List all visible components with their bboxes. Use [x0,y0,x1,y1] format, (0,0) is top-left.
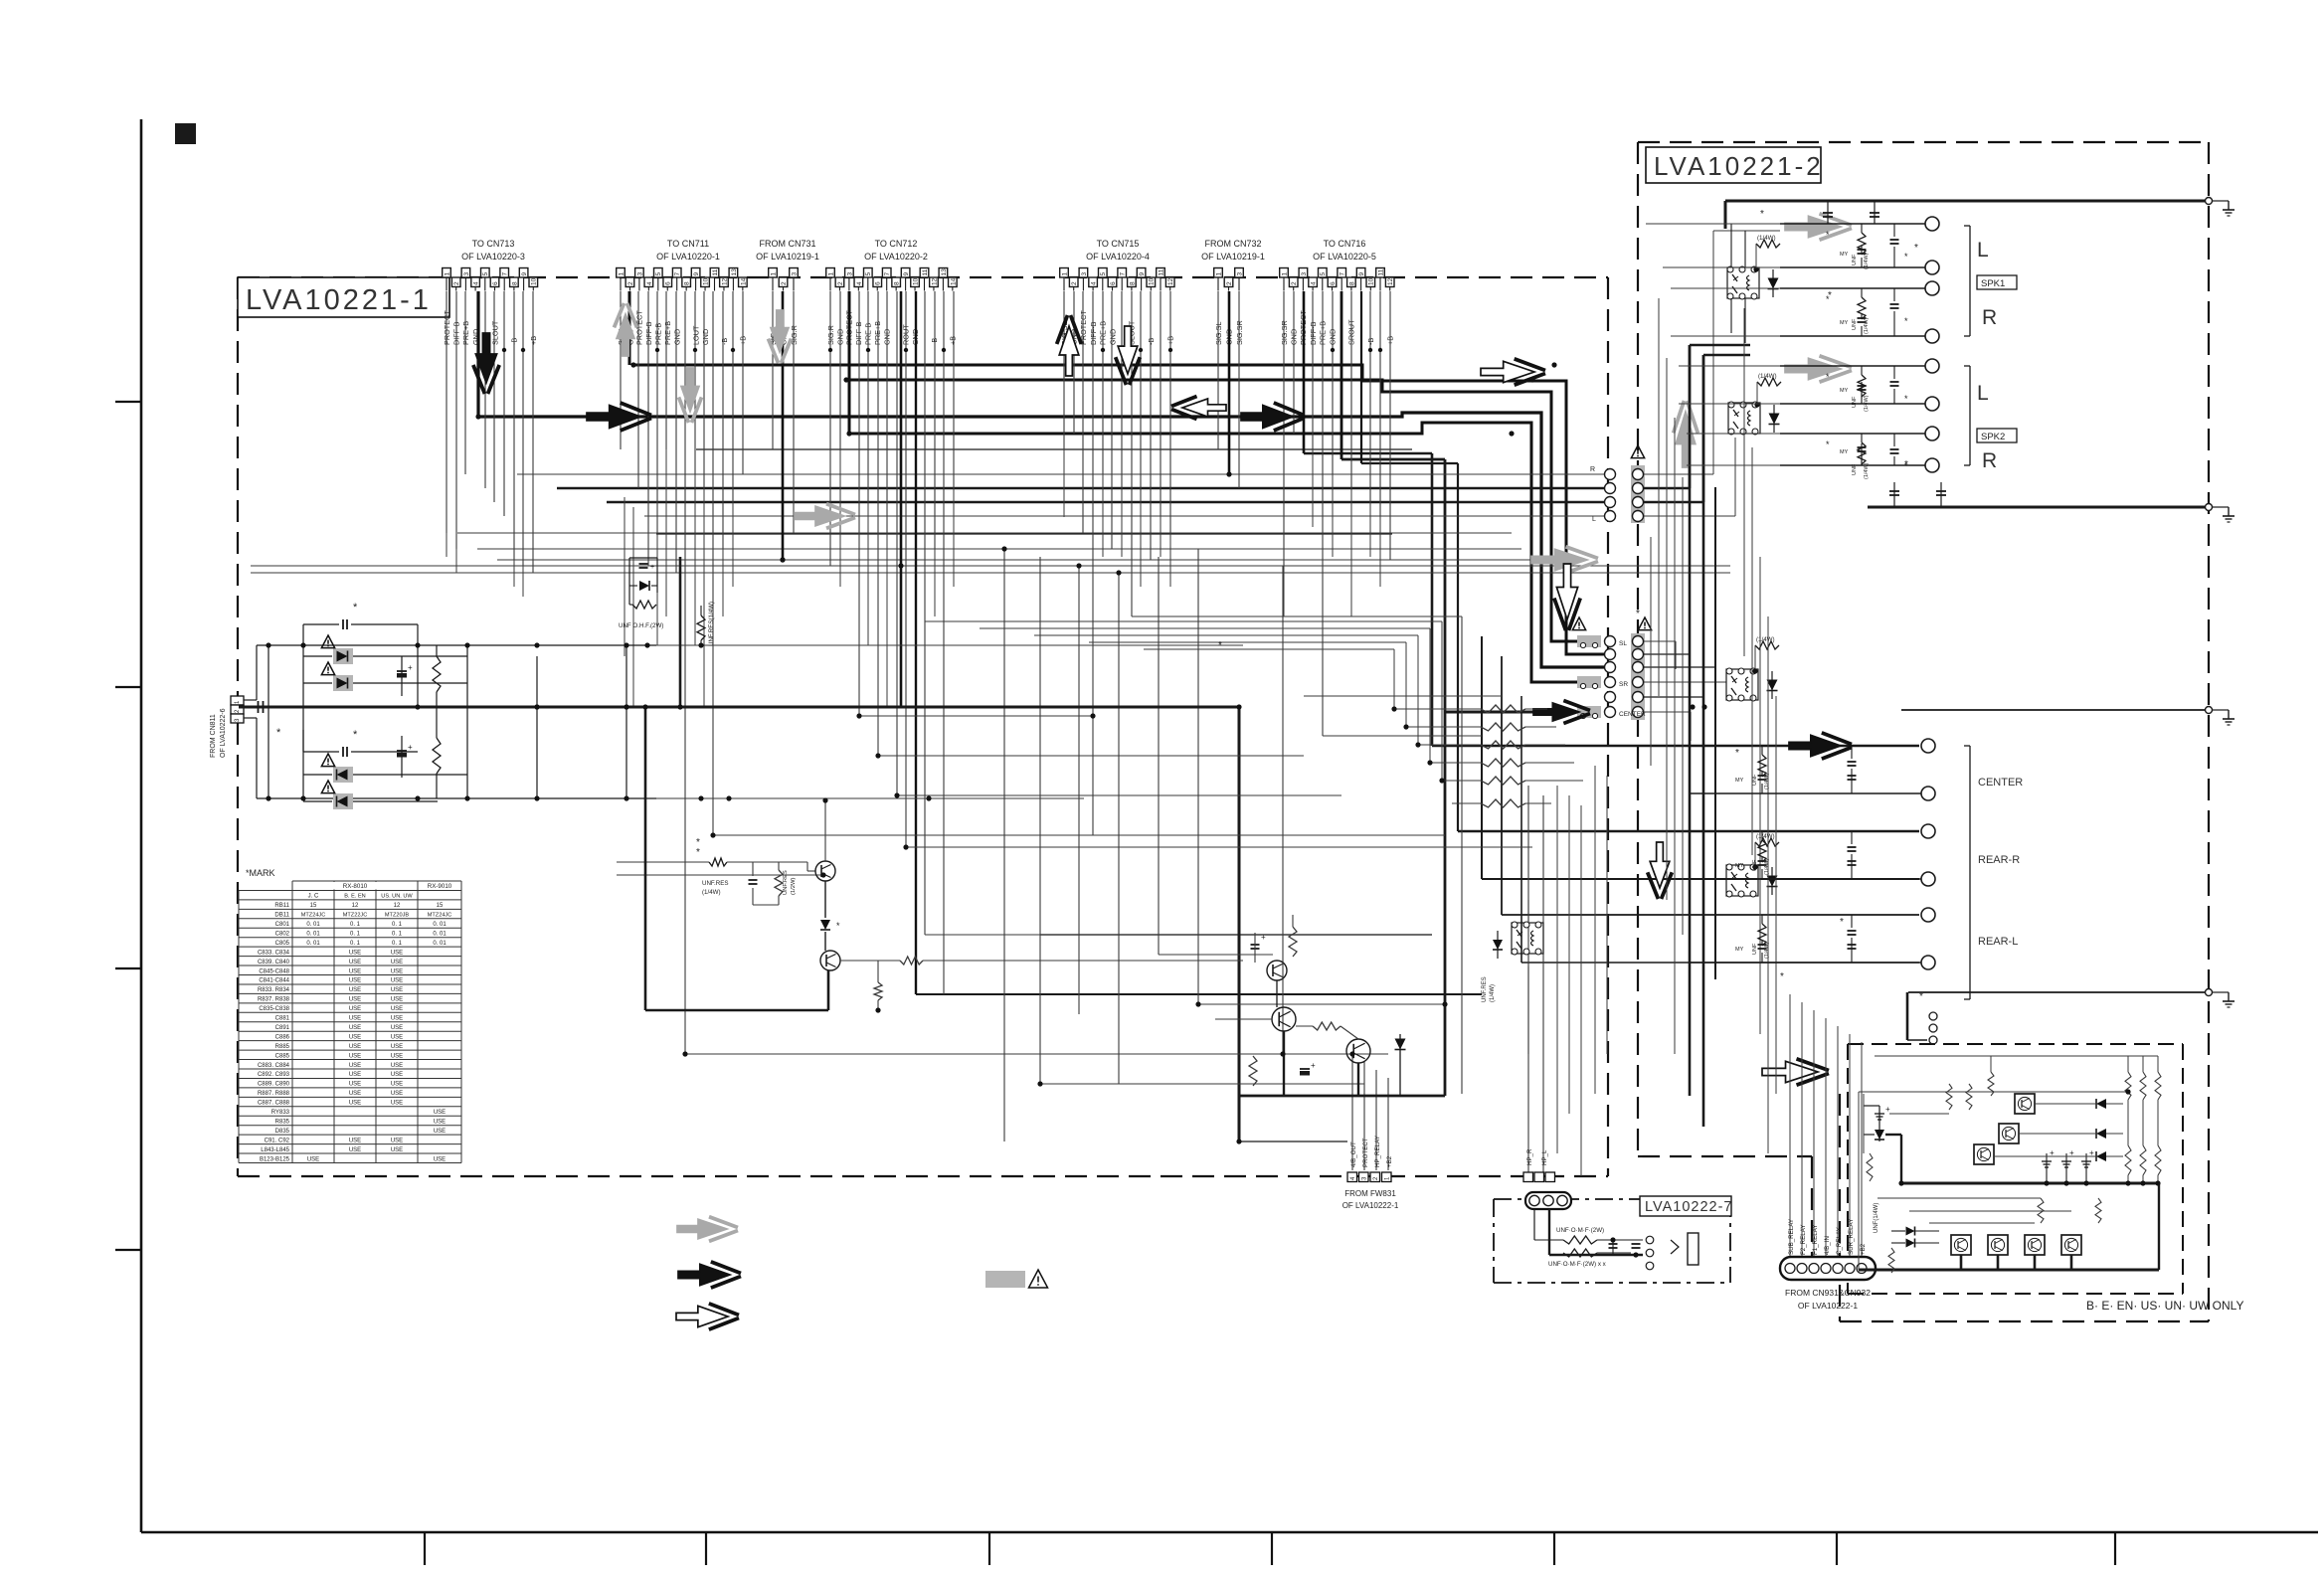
svg-text:MTZ24JC: MTZ24JC [301,913,326,919]
svg-text:L843-L845: L843-L845 [261,1147,289,1153]
svg-text:*: * [1780,971,1784,982]
svg-text:USE: USE [391,960,403,966]
svg-text:(1/4W): (1/4W) [1864,462,1870,479]
svg-text:10: 10 [912,277,919,285]
svg-text:11: 11 [922,268,929,275]
svg-text:US. UN. UW: US. UN. UW [381,894,413,900]
svg-text:*: * [1840,917,1844,928]
svg-text:MY: MY [1735,863,1744,869]
svg-text:USE: USE [349,1006,361,1012]
svg-text:USE: USE [391,1006,403,1012]
svg-text:USE: USE [391,1147,403,1153]
svg-text:OF LVA10220-1: OF LVA10220-1 [656,252,720,262]
svg-text:USE: USE [349,1053,361,1059]
svg-text:15: 15 [310,903,317,909]
svg-text:0. 1: 0. 1 [392,941,403,947]
svg-text:0. 01: 0. 01 [306,922,320,928]
svg-text:9: 9 [903,272,910,276]
svg-text:1: 1 [1215,272,1222,276]
svg-text:USE: USE [391,1025,403,1031]
svg-text:*: * [1904,394,1908,404]
svg-text:OF LVA10222-6: OF LVA10222-6 [220,708,227,758]
svg-text:R833. R834: R833. R834 [258,987,290,993]
svg-text:3: 3 [1301,272,1308,276]
svg-text:USE: USE [349,1044,361,1050]
svg-text:+: + [1261,933,1266,942]
svg-text:(1/4W): (1/4W) [1764,942,1770,959]
svg-text:SUR_RELAY: SUR_RELAY [1848,1219,1855,1255]
svg-text:(1/4W): (1/4W) [1756,636,1775,643]
svg-text:C91. C92: C91. C92 [265,1138,290,1143]
svg-text:TO CN712: TO CN712 [875,239,918,249]
svg-text:(1/4W): (1/4W) [1756,833,1775,840]
svg-text:OF LVA10220-5: OF LVA10220-5 [1313,252,1376,262]
svg-text:0. 1: 0. 1 [350,922,361,928]
svg-text:3: 3 [463,272,470,276]
svg-text:1: 1 [827,272,834,276]
svg-text:C801: C801 [275,922,290,928]
svg-text:USE: USE [307,1156,319,1162]
svg-text:FROM CN811: FROM CN811 [210,714,217,758]
svg-text:-B: -B [1366,338,1375,345]
svg-text:REAR-R: REAR-R [1978,854,2020,866]
svg-text:4: 4 [646,281,653,285]
svg-text:TO CN715: TO CN715 [1097,239,1140,249]
svg-text:0. 1: 0. 1 [350,931,361,937]
svg-text:*: * [1919,991,1923,1002]
svg-text:(1/4W): (1/4W) [1758,373,1777,380]
svg-text:UNF O.H.F.(2W): UNF O.H.F.(2W) [619,622,663,629]
svg-text:MY: MY [1840,252,1849,258]
svg-text:*: * [353,729,358,741]
svg-text:-B: -B [720,338,729,345]
svg-text:SR: SR [1619,681,1628,688]
svg-text:+: + [408,663,413,672]
svg-text:MY: MY [1735,947,1744,953]
svg-text:TO CN711: TO CN711 [667,239,709,249]
svg-text:L: L [1977,239,1989,262]
svg-text:5: 5 [1320,272,1327,276]
svg-text:C802: C802 [275,931,290,937]
svg-text:UNF: UNF [1752,859,1758,871]
svg-text:USE: USE [349,1072,361,1078]
svg-text:12: 12 [394,903,401,909]
svg-text:7: 7 [884,272,891,276]
svg-text:USE: USE [434,1119,446,1125]
svg-text:(1/4W): (1/4W) [1864,253,1870,269]
svg-text:(1/4W): (1/4W) [1864,395,1870,412]
svg-text:*: * [1826,372,1830,382]
svg-text:+B2: +B2 [1860,1243,1867,1255]
svg-text:*: * [836,921,840,931]
svg-text:USE: USE [349,1091,361,1097]
svg-text:LVA10221-1: LVA10221-1 [246,284,432,316]
svg-text:C885: C885 [275,1053,290,1059]
svg-text:SPK2: SPK2 [1981,432,2005,442]
svg-text:8: 8 [1348,281,1355,285]
svg-text:USE: USE [349,950,361,956]
svg-text:0. 01: 0. 01 [433,941,447,947]
svg-text:USE: USE [391,950,403,956]
svg-text:USE: USE [349,1138,361,1143]
svg-text:USE: USE [349,987,361,993]
svg-text:USE: USE [349,1025,361,1031]
svg-text:*MARK: *MARK [246,868,275,878]
svg-text:4/B_OUT: 4/B_OUT [1350,1141,1357,1167]
svg-text:USE: USE [391,1138,403,1143]
svg-text:MY: MY [1735,778,1744,784]
svg-text:8: 8 [511,281,518,285]
svg-text:3: 3 [636,272,643,276]
svg-text:OF LVA10220-2: OF LVA10220-2 [864,252,928,262]
svg-text:RY833: RY833 [271,1110,290,1116]
svg-text:10: 10 [1149,277,1156,285]
svg-text:USE: USE [349,1034,361,1040]
svg-text:USE: USE [349,960,361,966]
svg-text:11: 11 [1377,268,1384,275]
svg-text:UNF.RES: UNF.RES [702,880,728,887]
svg-text:HP_RELAY: HP_RELAY [1374,1136,1381,1167]
svg-text:C886: C886 [275,1034,290,1040]
svg-text:OF LVA10219-1: OF LVA10219-1 [756,252,819,262]
svg-text:6: 6 [875,281,882,285]
svg-text:USE: USE [391,978,403,984]
svg-text:USE: USE [349,968,361,974]
svg-text:LVA10222-7: LVA10222-7 [1645,1199,1732,1215]
svg-text:MY: MY [1840,320,1849,326]
svg-text:6: 6 [1110,281,1117,285]
svg-text:8: 8 [684,281,691,285]
svg-text:C889. C890: C889. C890 [258,1082,290,1088]
svg-text:USE: USE [349,978,361,984]
svg-text:GND: GND [673,329,682,345]
svg-text:UNF·O·M·F·(2W): UNF·O·M·F·(2W) [1556,1227,1604,1234]
svg-text:10: 10 [531,277,538,285]
svg-text:4: 4 [1311,281,1318,285]
svg-text:0. 01: 0. 01 [306,931,320,937]
svg-text:4: 4 [1091,281,1098,285]
svg-text:R837. R838: R837. R838 [258,997,290,1003]
svg-text:HP_L: HP_L [1541,1149,1548,1165]
svg-text:C805: C805 [275,941,290,947]
svg-text:R885: R885 [275,1044,290,1050]
svg-text:1: 1 [1061,272,1068,276]
svg-text:12: 12 [721,277,728,285]
svg-text:12: 12 [352,903,359,909]
svg-text:7: 7 [502,272,509,276]
svg-text:2: 2 [837,281,844,285]
svg-text:C845-C848: C845-C848 [259,968,289,974]
svg-text:*: * [1828,290,1832,301]
svg-text:*: * [1735,748,1739,759]
svg-text:C839. C840: C839. C840 [258,960,290,966]
svg-text:USE: USE [349,1016,361,1022]
svg-text:8: 8 [1129,281,1136,285]
svg-text:+B2: +B2 [1386,1155,1393,1167]
svg-text:PRE+B: PRE+B [663,321,672,345]
svg-text:MY: MY [1840,388,1849,394]
svg-text:L: L [1592,516,1596,523]
svg-text:0. 01: 0. 01 [433,922,447,928]
svg-text:+: + [2089,1148,2094,1157]
svg-text:*: * [1904,459,1908,470]
svg-text:+: + [1311,1061,1316,1070]
svg-text:*: * [1914,243,1918,254]
svg-text:USE: USE [391,1016,403,1022]
svg-text:11: 11 [1158,268,1164,275]
svg-text:HP_R: HP_R [1526,1148,1533,1165]
svg-text:MTZ22JC: MTZ22JC [343,913,368,919]
svg-text:LOUT: LOUT [691,325,700,345]
svg-text:5: 5 [1100,272,1107,276]
svg-text:+: + [408,743,413,752]
svg-text:R: R [1590,466,1595,473]
svg-text:UNF: UNF [1852,318,1858,330]
svg-text:USE: USE [434,1129,446,1135]
svg-text:3: 3 [791,272,798,276]
svg-text:GND: GND [701,329,710,345]
svg-text:UNF.RES: UNF.RES [783,870,789,895]
svg-text:MY: MY [1840,449,1849,455]
svg-text:USE: USE [391,1034,403,1040]
svg-text:DIFF-B: DIFF-B [644,321,653,345]
svg-text:9: 9 [1358,272,1365,276]
svg-text:-B: -B [1147,338,1156,345]
svg-text:USE: USE [349,997,361,1003]
svg-text:0. 01: 0. 01 [433,931,447,937]
svg-text:B123-B125: B123-B125 [260,1156,290,1162]
svg-text:2: 2 [1071,281,1078,285]
svg-text:3: 3 [846,272,853,276]
svg-text:UNF: UNF [1852,254,1858,265]
svg-text:L: L [1977,382,1989,405]
svg-text:0. 01: 0. 01 [306,941,320,947]
svg-text:5: 5 [865,272,872,276]
svg-text:2: 2 [627,281,634,285]
svg-text:SLOUT: SLOUT [490,320,499,345]
svg-text:TO CN716: TO CN716 [1324,239,1366,249]
svg-text:14: 14 [950,277,957,285]
svg-text:UNF: UNF [1852,396,1858,408]
svg-text:CENTER: CENTER [1619,711,1646,718]
svg-text:FROM CN931&CN932: FROM CN931&CN932 [1785,1288,1871,1298]
svg-text:(1/4W): (1/4W) [1490,984,1496,1002]
svg-text:USE: USE [434,1110,446,1116]
svg-text:*: * [1636,609,1640,619]
svg-text:11: 11 [712,268,719,275]
svg-text:SPK1: SPK1 [1981,278,2005,289]
svg-text:TO CN713: TO CN713 [472,239,515,249]
svg-text:4/B_IN: 4/B_IN [1824,1236,1831,1255]
svg-text:FROM FW831: FROM FW831 [1344,1189,1396,1198]
svg-text:UNF(1/4W): UNF(1/4W) [1874,1203,1879,1233]
svg-text:1: 1 [444,272,450,276]
svg-text:USE: USE [391,1101,403,1107]
svg-text:*: * [1904,316,1908,326]
svg-text:B· E· EN· US· UN· UW ONLY: B· E· EN· US· UN· UW ONLY [2086,1299,2243,1313]
svg-text:7: 7 [1340,272,1346,276]
svg-text:USE: USE [391,1091,403,1097]
svg-text:USE: USE [391,997,403,1003]
svg-text:REAR-L: REAR-L [1978,936,2018,948]
svg-text:(1/4W): (1/4W) [1764,773,1770,790]
svg-text:C891: C891 [275,1025,290,1031]
svg-text:13: 13 [941,268,948,276]
svg-text:OF LVA10220-4: OF LVA10220-4 [1086,252,1150,262]
svg-text:FROM CN732: FROM CN732 [1204,239,1261,249]
svg-text:2: 2 [453,281,460,285]
svg-text:PRE+B: PRE+B [461,321,470,345]
svg-text:USE: USE [391,1044,403,1050]
svg-text:9: 9 [521,272,528,276]
svg-text:RX-8010: RX-8010 [343,883,368,890]
svg-text:12: 12 [1167,277,1174,285]
svg-text:USE: USE [391,1072,403,1078]
svg-text:*: * [276,727,281,739]
svg-text:5: 5 [482,272,489,276]
svg-text:3: 3 [1081,272,1088,276]
svg-text:*: * [696,837,700,848]
svg-text:*: * [1218,640,1222,651]
svg-text:FROM CN731: FROM CN731 [759,239,815,249]
svg-text:5: 5 [655,272,662,276]
svg-text:8: 8 [894,281,901,285]
svg-text:UNF·O·M·F·(2W) x x: UNF·O·M·F·(2W) x x [1548,1261,1607,1268]
svg-text:*: * [1826,439,1830,449]
svg-text:UNF: UNF [1752,774,1758,786]
svg-text:12: 12 [931,277,938,285]
svg-text:C887. C888: C887. C888 [258,1101,290,1107]
svg-text:USE: USE [349,1147,361,1153]
svg-text:C835-C838: C835-C838 [259,1006,289,1012]
svg-text:6: 6 [1330,281,1337,285]
svg-text:R: R [1982,306,1997,329]
svg-text:9: 9 [1139,272,1146,276]
svg-text:C_RELAY: C_RELAY [1836,1227,1843,1255]
svg-text:USE: USE [349,1082,361,1088]
svg-text:USE: USE [349,1063,361,1069]
svg-text:14: 14 [740,277,747,285]
svg-text:*: * [1760,209,1764,220]
svg-text:(1/4W): (1/4W) [1757,235,1776,242]
svg-text:*: * [1904,252,1908,262]
svg-text:UNF.RES(1/4W): UNF.RES(1/4W) [708,602,715,646]
svg-text:(1/2W): (1/2W) [791,878,797,895]
svg-text:USE: USE [391,1082,403,1088]
svg-text:7: 7 [1120,272,1127,276]
svg-text:9: 9 [693,272,700,276]
svg-text:4: 4 [856,281,863,285]
svg-text:R835: R835 [275,1119,290,1125]
svg-text:15: 15 [437,903,444,909]
svg-text:DB11: DB11 [274,913,289,919]
svg-text:SUB_RELAY: SUB_RELAY [1788,1219,1795,1255]
svg-text:D835: D835 [275,1129,290,1135]
svg-text:USE: USE [391,1053,403,1059]
svg-text:UNF: UNF [1752,943,1758,955]
svg-text:1: 1 [770,272,777,276]
svg-text:1: 1 [618,272,625,276]
svg-text:RB11: RB11 [274,903,289,909]
svg-text:R: R [1982,449,1997,472]
svg-text:OF LVA10219-1: OF LVA10219-1 [1201,252,1265,262]
svg-text:+: + [650,564,654,571]
svg-text:4: 4 [473,281,480,285]
svg-text:USE: USE [391,987,403,993]
svg-text:C881: C881 [275,1016,290,1022]
svg-text:-B: -B [930,338,939,345]
svg-text:(1/4W): (1/4W) [1764,858,1770,875]
svg-text:2: 2 [1226,281,1233,285]
svg-text:OF LVA10222-1: OF LVA10222-1 [1798,1301,1858,1311]
svg-text:6: 6 [492,281,499,285]
svg-text:J. C: J. C [308,894,319,900]
svg-text:+B: +B [949,336,958,345]
svg-text:+: + [1885,1105,1890,1114]
svg-text:10: 10 [702,277,709,285]
svg-text:OF LVA10220-3: OF LVA10220-3 [461,252,525,262]
svg-text:12: 12 [1387,277,1394,285]
svg-text:13: 13 [731,268,738,276]
svg-text:MTZ20JB: MTZ20JB [385,913,410,919]
svg-text:(1/4W): (1/4W) [702,889,721,896]
svg-text:B. E. EN: B. E. EN [344,894,365,900]
svg-text:7: 7 [674,272,681,276]
svg-text:USE: USE [349,1101,361,1107]
svg-text:6: 6 [665,281,672,285]
svg-text:C883. C884: C883. C884 [258,1063,290,1069]
svg-text:PROTECT: PROTECT [1362,1138,1369,1167]
svg-text:C892. C893: C892. C893 [258,1072,290,1078]
svg-text:F2_RELAY: F2_RELAY [1800,1225,1807,1256]
svg-text:USE: USE [391,968,403,974]
svg-text:3: 3 [1236,272,1243,276]
svg-text:UNF.RES: UNF.RES [1482,976,1488,1002]
svg-text:0. 1: 0. 1 [350,941,361,947]
svg-text:LVA10221-2: LVA10221-2 [1654,151,1824,181]
svg-text:PRE-B: PRE-B [654,323,663,345]
svg-text:*: * [353,602,358,614]
svg-text:MTZ24JC: MTZ24JC [428,913,452,919]
svg-text:CENTER: CENTER [1978,777,2023,789]
svg-text:*: * [696,847,700,858]
svg-text:C833. C834: C833. C834 [258,950,290,956]
svg-text:*: * [1826,230,1830,240]
svg-text:USE: USE [434,1156,446,1162]
svg-text:2: 2 [1291,281,1298,285]
svg-text:(1/4W): (1/4W) [1864,317,1870,334]
svg-text:R887. R888: R887. R888 [258,1091,290,1097]
svg-text:USE: USE [391,1063,403,1069]
svg-text:C841-C844: C841-C844 [259,978,289,984]
svg-text:0. 1: 0. 1 [392,931,403,937]
svg-text:10: 10 [1368,277,1375,285]
svg-text:0. 1: 0. 1 [392,922,403,928]
svg-text:2: 2 [781,281,788,285]
svg-text:OF LVA10222-1: OF LVA10222-1 [1342,1201,1399,1210]
svg-text:F1_RELAY: F1_RELAY [1812,1225,1819,1256]
svg-text:GND: GND [1108,329,1117,345]
svg-text:1: 1 [1281,272,1288,276]
svg-text:RX-9010: RX-9010 [428,883,452,890]
svg-text:UNF: UNF [1852,463,1858,475]
svg-text:+B: +B [529,336,538,345]
svg-text:SL: SL [1619,640,1627,647]
